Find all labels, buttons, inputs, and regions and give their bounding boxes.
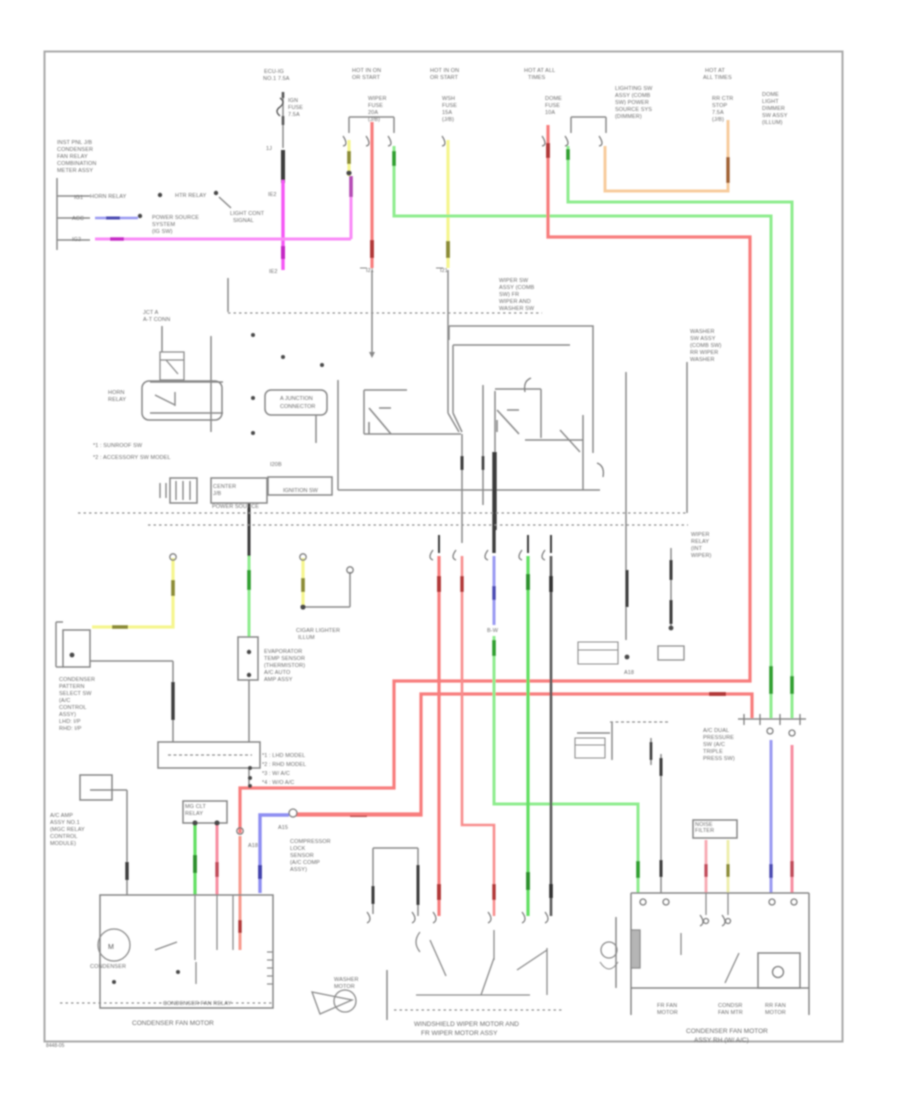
svg-text:LIGHT CONT: LIGHT CONT xyxy=(230,211,265,217)
svg-text:(INT: (INT xyxy=(691,546,703,552)
svg-text:I20B: I20B xyxy=(270,462,282,468)
svg-text:SIGNAL: SIGNAL xyxy=(233,218,254,224)
svg-text:M: M xyxy=(108,944,114,951)
svg-text:PRESSURE: PRESSURE xyxy=(703,735,734,741)
svg-text:WASHER: WASHER xyxy=(334,977,359,983)
svg-text:SOURCE SYS: SOURCE SYS xyxy=(615,107,652,113)
svg-text:(ILLUM): (ILLUM) xyxy=(762,120,783,126)
svg-text:LIGHT: LIGHT xyxy=(762,99,779,105)
svg-text:TIMES: TIMES xyxy=(528,75,546,81)
svg-text:PATTERN: PATTERN xyxy=(59,684,85,690)
svg-text:(IG SW): (IG SW) xyxy=(152,229,173,235)
svg-text:20A: 20A xyxy=(368,110,378,116)
svg-text:A JUNCTION: A JUNCTION xyxy=(280,396,313,402)
svg-text:RHD: I/P: RHD: I/P xyxy=(59,726,82,732)
svg-text:WINDSHIELD WIPER MOTOR AND: WINDSHIELD WIPER MOTOR AND xyxy=(414,1021,519,1028)
svg-text:TRIPLE: TRIPLE xyxy=(703,749,723,755)
svg-text:RELAY: RELAY xyxy=(108,397,126,403)
svg-text:(MGC RELAY: (MGC RELAY xyxy=(50,827,85,833)
svg-text:RR FAN: RR FAN xyxy=(765,1003,786,1009)
svg-text:RR WIPER: RR WIPER xyxy=(690,350,718,356)
svg-text:*3 : W/ A/C: *3 : W/ A/C xyxy=(262,771,290,777)
svg-text:EVAPORATOR: EVAPORATOR xyxy=(264,649,302,655)
svg-text:IE2: IE2 xyxy=(269,269,278,275)
svg-text:DOME: DOME xyxy=(762,92,779,98)
svg-text:ASSY): ASSY) xyxy=(290,867,307,873)
svg-text:WIPER SW: WIPER SW xyxy=(499,278,529,284)
svg-text:WASHER SW: WASHER SW xyxy=(499,306,535,312)
svg-text:OR START: OR START xyxy=(430,75,459,81)
svg-text:ASSY NO.1: ASSY NO.1 xyxy=(50,820,80,826)
svg-text:MODULE): MODULE) xyxy=(50,841,76,847)
svg-text:HOT AT: HOT AT xyxy=(705,68,725,74)
svg-text:B-W: B-W xyxy=(487,628,499,634)
svg-text:SELECT SW: SELECT SW xyxy=(59,691,92,697)
svg-text:SYSTEM: SYSTEM xyxy=(152,222,176,228)
svg-text:FR WIPER MOTOR ASSY: FR WIPER MOTOR ASSY xyxy=(421,1030,498,1037)
svg-text:CONDENSER: CONDENSER xyxy=(90,964,126,970)
svg-text:8448-05: 8448-05 xyxy=(46,1043,65,1049)
svg-text:*2 : RHD MODEL: *2 : RHD MODEL xyxy=(262,762,306,768)
svg-text:WIPER: WIPER xyxy=(691,532,710,538)
svg-text:SW) FR: SW) FR xyxy=(499,292,519,298)
svg-text:FR FAN: FR FAN xyxy=(657,1003,677,1009)
svg-text:(J/B): (J/B) xyxy=(712,117,724,123)
svg-text:CONDSR: CONDSR xyxy=(718,1003,742,1009)
svg-text:A-T CONN: A-T CONN xyxy=(143,317,170,323)
svg-text:FUSE: FUSE xyxy=(288,105,303,111)
svg-text:(A/C COMP: (A/C COMP xyxy=(290,860,320,866)
svg-text:*2 : ACCESSORY SW MODEL: *2 : ACCESSORY SW MODEL xyxy=(93,455,171,461)
svg-text:FUSE: FUSE xyxy=(442,103,457,109)
svg-text:A15: A15 xyxy=(278,825,288,831)
svg-text:RR CTR: RR CTR xyxy=(712,96,733,102)
svg-text:WASHER: WASHER xyxy=(690,357,715,363)
svg-text:OR START: OR START xyxy=(352,75,381,81)
svg-text:IG1: IG1 xyxy=(74,195,83,201)
svg-text:RELAY: RELAY xyxy=(185,811,203,817)
svg-text:SW ASSY: SW ASSY xyxy=(762,113,788,119)
svg-text:LOCK: LOCK xyxy=(290,846,306,852)
svg-text:FUSE: FUSE xyxy=(368,103,383,109)
svg-text:NO.1 7.5A: NO.1 7.5A xyxy=(263,76,290,82)
svg-text:HORN: HORN xyxy=(108,390,125,396)
svg-text:ALL TIMES: ALL TIMES xyxy=(703,75,732,81)
svg-text:WIPER): WIPER) xyxy=(691,553,712,559)
svg-text:RELAY: RELAY xyxy=(691,539,709,545)
svg-text:I21: I21 xyxy=(366,268,374,274)
svg-text:HORN RELAY: HORN RELAY xyxy=(90,194,127,200)
svg-text:FAN RELAY: FAN RELAY xyxy=(57,154,88,160)
svg-text:SW (A/C: SW (A/C xyxy=(703,742,725,748)
svg-text:CIGAR LIGHTER: CIGAR LIGHTER xyxy=(296,628,340,634)
svg-text:POWER SOURCE: POWER SOURCE xyxy=(212,504,259,510)
svg-text:FUSE: FUSE xyxy=(545,103,560,109)
svg-text:POWER SOURCE: POWER SOURCE xyxy=(152,215,199,221)
svg-text:10A: 10A xyxy=(545,110,555,116)
svg-text:STOP: STOP xyxy=(712,103,728,109)
svg-text:*1 : LHD MODEL: *1 : LHD MODEL xyxy=(262,753,305,759)
svg-text:(A/C: (A/C xyxy=(59,698,70,704)
svg-text:ACC: ACC xyxy=(72,216,84,222)
svg-text:(J/B): (J/B) xyxy=(368,117,380,123)
svg-text:(COMB SW): (COMB SW) xyxy=(690,343,722,349)
svg-text:WSH: WSH xyxy=(442,96,455,102)
svg-text:WIPER: WIPER xyxy=(368,96,387,102)
svg-text:CONTROL: CONTROL xyxy=(50,834,78,840)
svg-text:METER ASSY: METER ASSY xyxy=(57,168,93,174)
svg-text:A/C DUAL: A/C DUAL xyxy=(703,728,729,734)
svg-text:MOTOR: MOTOR xyxy=(765,1010,786,1016)
svg-text:COMBINATION: COMBINATION xyxy=(57,161,97,167)
svg-text:INST PNL J/B: INST PNL J/B xyxy=(57,140,92,146)
svg-text:*4 : W/O A/C: *4 : W/O A/C xyxy=(262,780,294,786)
svg-text:IG2: IG2 xyxy=(72,237,81,243)
svg-text:ASSY (COMB: ASSY (COMB xyxy=(615,93,651,99)
svg-text:MOTOR: MOTOR xyxy=(657,1010,678,1016)
svg-text:15A: 15A xyxy=(442,110,452,116)
svg-text:FAN MTR: FAN MTR xyxy=(718,1010,743,1016)
svg-text:WASHER: WASHER xyxy=(690,329,715,335)
svg-text:A/C AMP: A/C AMP xyxy=(50,813,73,819)
svg-text:CONDENSER: CONDENSER xyxy=(59,677,95,683)
svg-text:7.5A: 7.5A xyxy=(288,112,300,118)
svg-text:TEMP SENSOR: TEMP SENSOR xyxy=(264,656,305,662)
svg-text:LHD: I/P: LHD: I/P xyxy=(59,719,81,725)
svg-text:*1 : SUNROOF SW: *1 : SUNROOF SW xyxy=(93,443,143,449)
svg-text:MG CLT: MG CLT xyxy=(185,804,207,810)
svg-text:ASSY (COMB: ASSY (COMB xyxy=(499,285,535,291)
svg-text:SENSOR: SENSOR xyxy=(290,853,314,859)
svg-text:ASSY RH (W/ A/C): ASSY RH (W/ A/C) xyxy=(694,1037,749,1044)
svg-text:IGNITION SW: IGNITION SW xyxy=(283,488,319,494)
svg-text:CONNECTOR: CONNECTOR xyxy=(280,404,315,410)
svg-text:(THERMISTOR): (THERMISTOR) xyxy=(264,663,305,669)
svg-text:CONTROL: CONTROL xyxy=(59,705,87,711)
svg-text:CENTER: CENTER xyxy=(213,484,236,490)
svg-text:ASSY): ASSY) xyxy=(59,712,76,718)
svg-text:J/B: J/B xyxy=(213,491,221,497)
svg-text:SW ASSY: SW ASSY xyxy=(690,336,716,342)
svg-text:7.5A: 7.5A xyxy=(712,110,724,116)
svg-text:JCT A: JCT A xyxy=(143,310,159,316)
svg-text:MOTOR: MOTOR xyxy=(334,984,355,990)
svg-text:DOME: DOME xyxy=(545,96,562,102)
svg-text:HOT AT ALL: HOT AT ALL xyxy=(524,68,555,74)
svg-text:IE2: IE2 xyxy=(268,192,277,198)
svg-text:ECU-IG: ECU-IG xyxy=(264,69,284,75)
svg-text:HOT IN ON: HOT IN ON xyxy=(430,68,459,74)
svg-text:HOT IN ON: HOT IN ON xyxy=(352,68,381,74)
svg-text:HTR RELAY: HTR RELAY xyxy=(175,193,207,199)
svg-text:A18: A18 xyxy=(248,843,258,849)
svg-text:A/C AUTO: A/C AUTO xyxy=(264,670,291,676)
svg-text:IGN: IGN xyxy=(288,98,298,104)
svg-text:ILLUM: ILLUM xyxy=(298,635,315,641)
svg-text:(J/B): (J/B) xyxy=(442,117,454,123)
svg-text:COMPRESSOR: COMPRESSOR xyxy=(290,839,331,845)
svg-text:A18: A18 xyxy=(624,670,634,676)
svg-text:PRESS SW): PRESS SW) xyxy=(703,756,735,762)
svg-text:LIGHTING SW: LIGHTING SW xyxy=(615,86,653,92)
svg-text:SW) POWER: SW) POWER xyxy=(615,100,649,106)
svg-text:CONDENSER: CONDENSER xyxy=(57,147,93,153)
svg-text:CONDENSER FAN MOTOR: CONDENSER FAN MOTOR xyxy=(132,1020,214,1027)
svg-text:CONDENSER FAN RELAY: CONDENSER FAN RELAY xyxy=(163,1001,232,1007)
svg-text:FILTER: FILTER xyxy=(695,828,714,834)
svg-text:CONDENSER FAN MOTOR: CONDENSER FAN MOTOR xyxy=(686,1028,768,1035)
svg-text:I21: I21 xyxy=(440,268,448,274)
svg-text:AMP ASSY: AMP ASSY xyxy=(264,677,293,683)
svg-text:DIMMER: DIMMER xyxy=(762,106,785,112)
svg-text:WIPER AND: WIPER AND xyxy=(499,299,531,305)
svg-text:(DIMMER): (DIMMER) xyxy=(615,114,642,120)
svg-text:1J: 1J xyxy=(266,146,272,152)
